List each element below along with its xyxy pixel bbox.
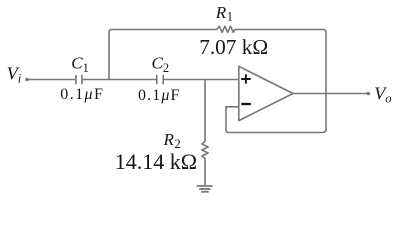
svg-text:C1: C1 — [71, 54, 89, 75]
svg-text:7.07 kΩ: 7.07 kΩ — [199, 35, 268, 59]
svg-text:14.14 kΩ: 14.14 kΩ — [115, 149, 197, 174]
svg-text:C2: C2 — [152, 54, 170, 75]
svg-text:Vo: Vo — [374, 83, 391, 105]
svg-text:R2: R2 — [163, 130, 181, 151]
svg-text:0.1μF: 0.1μF — [60, 86, 104, 103]
svg-text:Vi: Vi — [7, 64, 22, 86]
svg-text:0.1μF: 0.1μF — [138, 87, 180, 104]
svg-text:R1: R1 — [215, 3, 233, 24]
